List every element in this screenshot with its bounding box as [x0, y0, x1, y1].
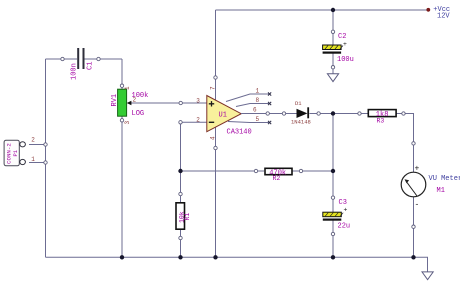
resistor R3 [368, 110, 396, 125]
svg-text:1N4148: 1N4148 [291, 119, 311, 126]
svg-text:C1: C1 [86, 62, 94, 70]
svg-text:R3: R3 [377, 118, 385, 125]
svg-text:4: 4 [209, 136, 216, 140]
potentiometer RV1 [111, 86, 148, 125]
capacitor C3 [323, 199, 350, 231]
VU meter M1 [401, 165, 460, 210]
svg-text:+: + [415, 165, 420, 174]
capacitor C1 [70, 48, 94, 80]
wire C1 row [46, 58, 123, 60]
svg-text:U1: U1 [219, 112, 227, 120]
wire wiper to pin3 [128, 102, 207, 104]
op-amp U1 pin 8 stub [236, 104, 270, 107]
wire meter bottom [413, 197, 415, 257]
svg-text:12V: 12V [437, 12, 450, 20]
svg-text:M1: M1 [437, 187, 445, 195]
svg-text:6: 6 [253, 107, 257, 114]
op-amp U1 [207, 96, 252, 137]
wire left rail [45, 59, 47, 257]
svg-text:7: 7 [209, 86, 216, 90]
svg-text:P1: P1 [12, 149, 19, 156]
connector P1 [4, 137, 35, 166]
wire top rail [216, 9, 428, 11]
svg-text:CA3140: CA3140 [227, 129, 252, 137]
svg-text:100u: 100u [337, 56, 354, 64]
svg-text:C2: C2 [338, 33, 346, 41]
svg-text:R2: R2 [273, 175, 281, 182]
op-amp U1 pin 5 stub [228, 122, 270, 123]
power terminal +Vcc [426, 6, 450, 20]
wire RV1 branch [121, 59, 123, 257]
op-amp U1 pin 6 stub [241, 113, 268, 115]
svg-text:RV1: RV1 [111, 94, 119, 107]
svg-text:1: 1 [256, 88, 260, 95]
svg-text:2: 2 [31, 137, 35, 144]
svg-text:VU Meter: VU Meter [429, 175, 460, 183]
wire C3 branch [332, 114, 334, 258]
svg-text:5: 5 [256, 116, 260, 123]
wire bottom rail [46, 257, 428, 271]
svg-text:LOG: LOG [132, 110, 145, 118]
svg-text:8: 8 [256, 97, 260, 104]
svg-text:D1: D1 [295, 100, 302, 107]
resistor R2 [265, 168, 292, 182]
wire pin2 branch [181, 122, 207, 171]
wire output row [241, 114, 414, 173]
wire C2 branch [332, 10, 334, 74]
svg-text:100k: 100k [132, 92, 149, 100]
op-amp U1 pin 1 stub [226, 94, 270, 102]
ground (C2) [327, 74, 338, 82]
svg-text:1: 1 [124, 86, 131, 90]
svg-text:R1: R1 [184, 213, 191, 221]
diode D1 [291, 100, 311, 126]
svg-text:100n: 100n [70, 63, 78, 80]
wire R2 row [181, 170, 334, 172]
resistor R1 [176, 203, 191, 229]
wire R1 branch [180, 171, 182, 257]
wire P1 pin stubs [29, 145, 46, 163]
ground (bottom right) [422, 272, 433, 280]
svg-text:3: 3 [124, 121, 131, 125]
pin end circles [44, 30, 415, 240]
svg-text:+: + [344, 207, 348, 214]
svg-text:-: - [415, 201, 420, 210]
capacitor C2 [323, 33, 354, 64]
wire op-amp pin4 vertical [215, 127, 217, 257]
svg-text:+: + [343, 41, 347, 48]
wire op-amp pin7 vertical [215, 10, 217, 100]
svg-text:1: 1 [31, 156, 35, 163]
unconnected pin x-marks [268, 92, 271, 124]
svg-text:3: 3 [196, 97, 200, 104]
svg-text:2: 2 [196, 116, 200, 123]
svg-text:22u: 22u [338, 223, 351, 231]
